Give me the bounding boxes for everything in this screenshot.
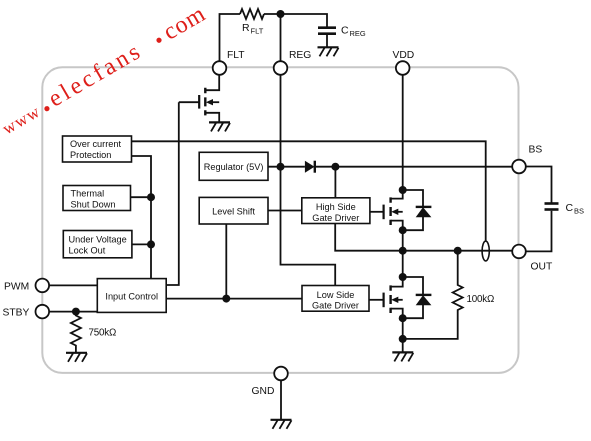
block under voltage lock out [63,231,132,258]
svg-text:www: www [0,101,44,138]
svg-text:Shut Down: Shut Down [71,200,116,210]
svg-text:Lock Out: Lock Out [69,246,106,256]
svg-text:Low Side: Low Side [317,290,355,300]
wire REG pin up [280,14,282,61]
block over current protection [63,136,132,162]
wire UVLO stub [132,243,151,245]
svg-text:OUT: OUT [531,262,553,273]
pin PWM [36,279,50,293]
svg-text:Level Shift: Level Shift [212,206,255,216]
ground under M1 [209,122,230,131]
wire M1 gate to Input Control [166,102,179,285]
resistor RFLT [240,9,264,19]
wire thermal stub [131,196,152,198]
pin OUT [512,245,526,259]
wire HSGD top feed [334,167,336,198]
wire REG rail down to low side driver [281,75,336,286]
svg-text:REG: REG [289,50,311,61]
IC package outline [42,67,518,373]
wire OCP to protection chain [132,156,152,279]
junction dot OUT at 100k [454,247,462,255]
wire level shift to high side driver [268,210,302,212]
pin REG [274,61,288,75]
svg-text:VDD: VDD [393,50,415,61]
wire HSGD return and OUT line [335,224,512,251]
junction dot STBY [72,308,80,316]
junction dot HSGD feed [331,163,339,171]
svg-text:750kΩ: 750kΩ [89,328,117,339]
block low side gate driver [302,286,369,312]
ground under Q2 [392,352,413,361]
svg-text:GND: GND [252,386,275,397]
junction dot REG at regulator output [277,163,285,171]
wire STBY to input control [49,311,97,313]
ground under GND [271,420,292,429]
svg-text:Input Control: Input Control [105,291,158,301]
junction dot Q1 drain [399,186,407,194]
svg-text:com: com [159,1,210,46]
ground under CREG [318,47,339,56]
svg-text:STBY: STBY [3,307,30,318]
ellipse crossing at OUT sense [482,241,489,261]
wire Q1 source to OUT node [402,230,404,251]
wire ground node to ground [402,339,404,353]
junction dot level shift feed [222,295,230,303]
transistor Q1 high side MOSFET [370,190,403,230]
junction dot UVLO [147,240,155,248]
block regulator 5V [199,152,268,180]
junction dot Q2 source [399,314,407,322]
wire regulator output to diode [268,166,305,168]
svg-text:Thermal: Thermal [71,189,105,199]
pin VDD [396,61,410,75]
svg-text:R: R [242,22,250,34]
svg-text:BS: BS [574,206,584,215]
wire Q2 source to ground node [402,318,404,339]
transistor Q2 low side MOSFET [369,277,403,318]
svg-text:Regulator (5V): Regulator (5V) [204,162,264,172]
resistor 100k [403,251,463,339]
watermark www.elecfans.com [0,1,210,140]
wire OUT to Q2 drain [402,251,404,277]
pin BS [512,160,526,174]
pin STBY [36,305,50,319]
wire diode to BS [315,166,512,168]
block high side gate driver [302,198,370,224]
wire input control to low side driver [166,298,302,300]
ground under 750k [66,353,87,362]
diode D3 body diode Q2 [403,277,432,318]
wire PWM to input control [49,284,97,286]
svg-text:Over current: Over current [70,139,122,149]
diode D2 body diode Q1 [403,190,432,230]
wire GND pin to ground [280,380,282,420]
svg-text:FLT: FLT [251,27,264,36]
transistor M1 (FLT clamp MOSFET) [179,75,219,123]
svg-text:REG: REG [350,29,366,38]
capacitor CBS and wires [526,167,552,204]
svg-text:FLT: FLT [227,50,245,61]
wire RFLT to CREG [264,14,327,27]
junction dot ground node [399,335,407,343]
svg-text:High Side: High Side [316,202,356,212]
svg-text:C: C [341,25,349,37]
svg-text:100kΩ: 100kΩ [467,294,495,305]
svg-text:Gate Driver: Gate Driver [312,301,359,311]
resistor 750k [71,312,81,353]
wire VDD rail [402,75,404,190]
wire over-current sense line to OUT node [132,141,486,241]
junction dot OUT at Q1 [399,247,407,255]
svg-text:Protection: Protection [70,150,111,160]
svg-text:BS: BS [529,145,543,156]
block input control [97,279,166,313]
block level shift [199,197,268,224]
junction dot Q2 drain [399,273,407,281]
junction dot thermal [147,193,155,201]
junction dot REG top [277,10,285,18]
diode D1 bootstrap [305,161,315,173]
pin FLT [213,61,227,75]
svg-text:elecfans: elecfans [44,38,147,113]
wire FLT to RFLT top [220,14,241,61]
svg-text:Under Voltage: Under Voltage [69,235,127,245]
wire level shift bottom [225,224,227,299]
junction dot Q1 source [399,226,407,234]
svg-text:C: C [566,202,574,214]
svg-text:PWM: PWM [4,282,29,293]
block thermal shut down [63,186,131,211]
pin GND [274,367,288,381]
capacitor CREG [318,26,336,29]
svg-text:Gate Driver: Gate Driver [312,213,359,223]
